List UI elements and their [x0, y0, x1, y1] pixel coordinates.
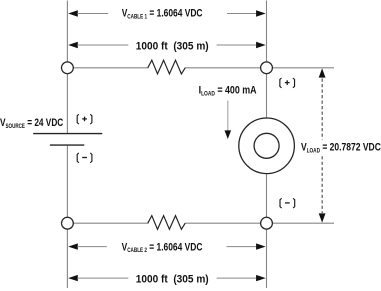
label Vcable2	[122, 241, 203, 254]
wire left rail upper section	[66, 1, 68, 134]
dimension line Vcable1 top	[68, 10, 266, 16]
label (-) load	[280, 198, 295, 208]
label 1000ft top	[136, 40, 209, 53]
wire bottom conductor right segment	[185, 222, 267, 224]
label 1000ft bottom	[136, 273, 209, 286]
node top-left	[62, 62, 74, 74]
wire top conductor left segment	[67, 67, 148, 69]
label Vsource	[0, 117, 63, 130]
dimension line Vcable2 bottom	[68, 243, 266, 249]
svg-text:1000 ft (305 m): 1000 ft (305 m)	[136, 40, 209, 53]
dashed Vload dimension line with arrows	[319, 68, 326, 222]
label Vload	[301, 142, 381, 155]
label (+) source	[77, 114, 92, 124]
wire bottom conductor left segment	[67, 222, 148, 224]
load inner circle	[254, 133, 279, 158]
dimension line 1000ft top	[68, 42, 266, 48]
wire stub right of top-right node	[267, 67, 335, 69]
wire stub right of bottom-right node	[267, 222, 335, 224]
svg-text:1000 ft (305 m): 1000 ft (305 m)	[136, 273, 209, 286]
resistor Rcable1 top	[148, 60, 185, 74]
label Iload	[199, 85, 258, 98]
current arrow Iload	[225, 101, 232, 140]
dimension line 1000ft bottom	[68, 275, 266, 281]
battery V1 long plate	[33, 133, 102, 135]
resistor Rcable2 bottom	[148, 216, 185, 230]
wire left rail lower section	[66, 146, 68, 288]
battery V1 short plate	[50, 144, 84, 146]
label Vcable1	[122, 8, 203, 21]
node bottom-right	[261, 217, 273, 229]
label (+) load	[280, 78, 295, 88]
load outer circle	[239, 118, 295, 174]
node bottom-left	[62, 217, 74, 229]
wire right rail	[266, 1, 268, 289]
wire top conductor right segment	[185, 67, 267, 69]
node top-right	[261, 62, 273, 74]
label (-) source	[77, 153, 92, 163]
